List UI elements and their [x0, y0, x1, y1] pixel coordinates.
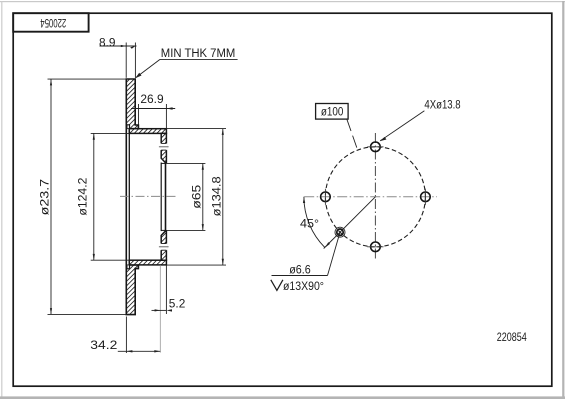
dim ø23.7 ext lines — [48, 78, 127, 80]
flange bottom (hatched) — [161, 231, 166, 260]
bolt hole in flange bottom (white gap) — [160, 244, 167, 251]
hole center mark top — [159, 146, 169, 148]
web bottom (hatched) — [129, 260, 166, 265]
svg-text:220854: 220854 — [497, 331, 527, 344]
vertical centerline — [374, 133, 376, 261]
svg-text:26.9: 26.9 — [140, 92, 164, 106]
page edge bottom — [0, 396, 565, 399]
section centerline (axis) — [120, 195, 176, 197]
svg-text:45°: 45° — [300, 216, 319, 230]
bolt hole bottom — [371, 242, 381, 252]
dim 26.9 ext lines — [138, 104, 140, 125]
ring top (hatched) — [126, 79, 138, 129]
ring silhouette line (left face, full height) — [125, 79, 127, 315]
label countersink ø13X90 — [271, 280, 283, 291]
horizontal centerline — [304, 196, 437, 198]
dim 34.2 ext line — [125, 317, 127, 354]
page edge right — [562, 1, 564, 399]
svg-text:34.2: 34.2 — [90, 338, 117, 352]
title box — [13, 13, 88, 32]
flange top (hub, hatched) — [161, 133, 166, 162]
svg-text:ø100: ø100 — [321, 105, 344, 119]
bore bottom line — [161, 229, 166, 231]
label box ø100 — [316, 104, 349, 120]
svg-text:ø6.6: ø6.6 — [289, 262, 311, 276]
svg-text:ø124.2: ø124.2 — [76, 177, 90, 215]
web top (hat wall, hatched) — [129, 129, 166, 134]
leader set screw hole — [328, 232, 341, 275]
dim 8.9 arrows — [121, 45, 126, 47]
dim ø124.2 line — [93, 133, 95, 260]
svg-text:ø65: ø65 — [190, 185, 204, 209]
bolt hole right — [421, 192, 431, 202]
bore top line — [161, 162, 166, 164]
svg-text:5.2: 5.2 — [169, 297, 186, 311]
dim ø134.8 ext lines — [167, 128, 227, 130]
bolt hole in flange top (white gap) — [160, 143, 167, 150]
dim ø65 line — [202, 163, 204, 230]
bolt hole left — [321, 192, 331, 202]
ring bottom (hatched) — [126, 265, 138, 315]
dim 8.9 line — [100, 45, 137, 47]
dim ø134.8 line — [222, 129, 224, 266]
bore edge lines (vertical, through bore) — [160, 163, 162, 232]
notch top (relief groove) — [127, 125, 129, 129]
svg-text:220054: 220054 — [40, 16, 66, 28]
45 degree arc dimension — [304, 197, 325, 248]
svg-text:8.9: 8.9 — [99, 36, 116, 50]
svg-text:4Xø13.8: 4Xø13.8 — [424, 97, 460, 111]
dim 8.9 ext lines — [125, 43, 127, 78]
bolt hole top — [371, 142, 381, 152]
dim 26.9 line — [131, 108, 175, 110]
notch bottom — [127, 265, 129, 269]
bolt circle ø100 (dashed) — [325, 147, 425, 247]
svg-text:ø23.7: ø23.7 — [38, 179, 52, 216]
dim ø124.2 ext lines — [91, 132, 130, 134]
groove silhouette line — [128, 125, 130, 269]
page edge left — [1, 1, 2, 398]
page edge top — [0, 1, 565, 2]
radial line through set screw hole — [324, 197, 376, 249]
dim 34.2 line — [118, 350, 161, 352]
dim ø23.7 line — [50, 79, 52, 314]
leader from ø100 box to bolt circle — [347, 119, 351, 131]
dim 5.2 line — [152, 309, 167, 311]
dim ø65 ext lines — [167, 162, 206, 164]
dim 5.2 ext lines — [159, 265, 161, 352]
set screw hole at 45 deg — [337, 229, 343, 235]
svg-text:ø134.8: ø134.8 — [210, 176, 224, 216]
svg-text:MIN THK 7MM: MIN THK 7MM — [161, 46, 236, 60]
leader MIN THK — [136, 59, 160, 77]
hole center mark bottom — [159, 246, 169, 248]
svg-text:ø13X90°: ø13X90° — [283, 279, 324, 293]
leader 4Xø13.8 — [380, 111, 424, 141]
